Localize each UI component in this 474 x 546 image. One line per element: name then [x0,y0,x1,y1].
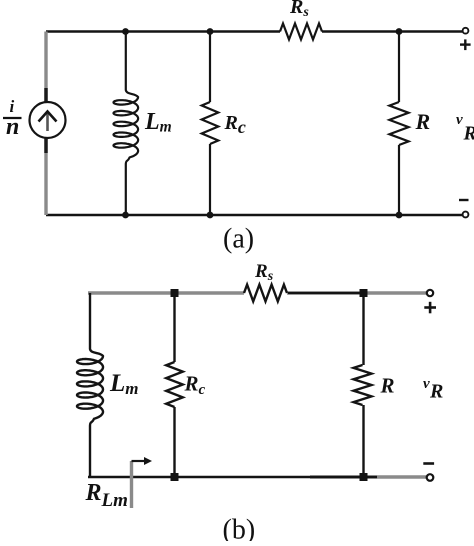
svg-text:R: R [380,374,395,398]
node dot (a) bottom Rc [207,212,214,219]
wire: black stub below current source [44,138,47,153]
terminal (a) - (open circle) [463,212,469,218]
wire: (b) top horizontal (gray), Rs to terminal [287,291,427,294]
label minus (a) [459,199,469,201]
node dot (a) top Lm [122,28,129,35]
inductor Lm (b) [77,293,103,477]
wire: (a) Rc branch top lead [209,32,211,103]
node dot (a) bottom R [396,212,403,219]
node dot (b) bottom Rc (square) [171,473,179,481]
resistor Rs (a) [280,24,322,40]
svg-text:v: v [456,112,463,128]
R_Lm probe arrow: gray vertical stem [130,461,133,508]
label + (a) [460,39,471,50]
inductor Lm (a) [114,32,139,216]
terminal (a) + (open circle) [463,28,469,34]
wire: (b) R branch top [362,293,364,365]
current source arrow shaft [46,113,49,131]
label minus (b) [423,462,434,465]
resistor R (a) [389,102,408,145]
node dot (b) bottom R (square) [360,473,368,481]
wire: (a) top horizontal, Rs to + terminal [322,30,463,32]
wire: (a) R branch bottom lead [398,145,400,215]
wire: (a) top horizontal, left corner to Rs [46,30,280,32]
wire: (b) top black overlay segment [288,292,362,294]
label i/n fraction [3,97,22,140]
wire: (b) Rc branch bottom [173,407,175,477]
svg-text:R: R [463,123,474,145]
wire: (b) bottom horizontal black [88,476,377,478]
R_Lm probe arrow: black horizontal with arrowhead [132,460,148,462]
current source arrow head [39,112,57,122]
wire: black stub above current source [44,88,47,102]
wire: (b) top horizontal (gray), left to Rs [88,291,244,294]
svg-text:n: n [6,114,19,140]
svg-text:R: R [429,381,443,403]
wire: (b) bottom horizontal gray [310,475,426,478]
node dot (a) bottom Lm [122,212,129,219]
svg-text:R: R [415,109,431,134]
terminal (b) + (open circle) [427,290,433,296]
label + (b) [424,302,436,314]
wire: (a) R branch top lead [398,32,400,103]
svg-text:v: v [423,376,430,392]
terminal (b) - (open circle) [427,474,434,481]
wire: (a) left vertical (gray) [44,32,47,216]
node dot (b) top Rc (square) [171,289,179,297]
wire: (b) R branch bottom [362,405,364,477]
node dot (a) top Rc [207,28,214,35]
node dot (b) top R (square) [360,289,368,297]
wire: (a) Rc branch bottom lead [209,144,211,215]
current source I (circle) [30,102,66,138]
svg-text:(b): (b) [223,515,256,542]
wire: (b) Rc branch [173,293,175,362]
node dot (a) top R [396,28,403,35]
resistor Rs (b) [244,285,287,302]
resistor Rc (b) [166,362,183,407]
wire: (a) bottom horizontal [46,214,463,216]
svg-text:(a): (a) [223,224,254,255]
resistor R (b) [354,365,372,405]
resistor Rc (a) [202,102,219,144]
